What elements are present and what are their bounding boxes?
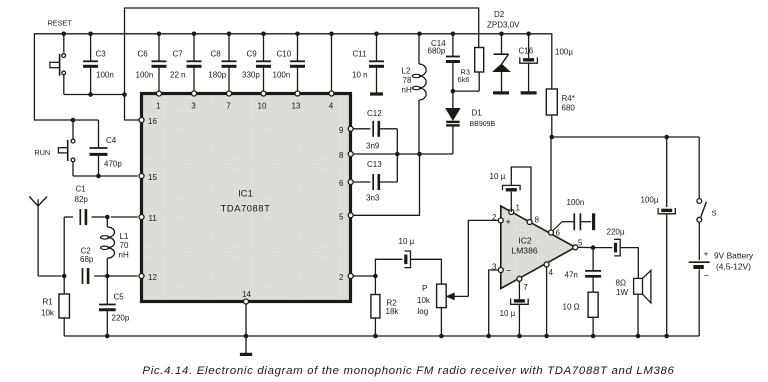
svg-text:100n: 100n	[96, 71, 114, 80]
ground terminal bar below C16	[521, 91, 537, 94]
loudspeaker 8 Ohm 1W	[616, 270, 651, 336]
capacitor 10u coupling	[375, 237, 441, 284]
svg-text:+: +	[506, 217, 511, 227]
IC1 pin 14	[242, 290, 251, 304]
capacitor C2 68p	[80, 247, 94, 285]
svg-text:78: 78	[403, 76, 412, 85]
svg-text:18k: 18k	[386, 307, 400, 316]
resistor R2 18k	[371, 276, 399, 336]
svg-text:+: +	[704, 249, 709, 259]
IC1 pin 5	[339, 212, 353, 221]
resistor R1 10k	[41, 276, 69, 336]
capacitor C4 470p	[90, 120, 123, 176]
svg-text:C6: C6	[138, 50, 149, 59]
wire: Vcc rail y=34 from RUN branch corner to R4 top	[34, 34, 551, 120]
ground symbol below pin 14	[240, 336, 252, 354]
IC1 pin 9	[339, 126, 353, 135]
svg-text:C7: C7	[173, 50, 184, 59]
node: D2 top on Vcc rail	[499, 32, 504, 37]
capacitor C7 22 n	[170, 34, 202, 91]
svg-text:10 n: 10 n	[352, 71, 368, 80]
svg-text:nH: nH	[119, 251, 129, 260]
IC1 TDA7088T body	[142, 94, 351, 302]
battery 9V	[689, 249, 754, 337]
node: C11 top on Vcc rail	[374, 32, 379, 37]
wire: pin 5 to tank	[353, 154, 419, 215]
resistor R4* 680	[546, 89, 575, 137]
svg-text:12: 12	[148, 273, 157, 282]
node: supply node below R4	[550, 135, 555, 140]
node: C2 left junction	[62, 274, 67, 279]
node: RESET button top junction on Vcc rail	[62, 32, 67, 37]
svg-text:16: 16	[148, 117, 157, 126]
pushbutton RESET	[48, 19, 73, 76]
wire: supply line to switch	[552, 137, 699, 199]
svg-text:RESET: RESET	[48, 19, 73, 28]
svg-text:C9: C9	[247, 50, 258, 59]
svg-text:BB909B: BB909B	[470, 121, 496, 128]
node: R2 bottom on ground rail	[373, 334, 378, 339]
IC2 pin 1	[509, 204, 521, 215]
zener diode D2 ZPD3.0V	[487, 10, 520, 92]
capacitor C14 680p	[428, 34, 460, 91]
svg-text:10 µ: 10 µ	[490, 172, 506, 181]
capacitor C9 330p	[242, 34, 271, 91]
svg-text:220µ: 220µ	[607, 228, 625, 237]
svg-text:5: 5	[578, 239, 583, 248]
node: 100u ground junction	[664, 334, 669, 339]
node: reset line meets vertical to pin 16	[122, 92, 127, 97]
svg-text:180p: 180p	[208, 71, 226, 80]
svg-text:C12: C12	[367, 109, 382, 118]
node: RUN button top junction	[71, 118, 76, 123]
node: pin4 ground junction	[544, 334, 549, 339]
svg-text:7: 7	[523, 283, 528, 292]
svg-text:1W: 1W	[616, 288, 628, 297]
wire: Vcc rail to RESET button	[63, 34, 65, 53]
svg-text:S: S	[712, 209, 717, 218]
svg-text:10k: 10k	[41, 309, 55, 318]
wire: supply to IC2 pin 6	[550, 137, 552, 230]
svg-text:C10: C10	[277, 50, 292, 59]
capacitor 100u (supply reservoir)	[641, 137, 676, 336]
svg-text:14: 14	[242, 290, 251, 299]
node: C5 bottom on ground rail	[105, 334, 110, 339]
capacitor C16 100u	[519, 34, 574, 92]
capacitor C13 3n3	[353, 154, 397, 203]
wire: RUN button bottom to pin 15 line	[73, 162, 138, 176]
svg-text:100n: 100n	[567, 198, 585, 207]
svg-text:100µ: 100µ	[555, 48, 573, 57]
IC2 pin 3 (-)	[492, 263, 511, 276]
svg-text:Pic.4.14. Electronic diagram: Pic.4.14. Electronic diagram of the mono…	[142, 365, 674, 377]
svg-text:L1: L1	[120, 232, 129, 241]
capacitor C8 180p	[208, 34, 236, 91]
wire: C2 run right to pin 12	[94, 275, 138, 277]
capacitor C12 3n9	[353, 109, 397, 154]
wire: C1/C2 left vertical	[64, 217, 73, 276]
svg-text:9V Battery: 9V Battery	[714, 251, 754, 261]
svg-text:47n: 47n	[565, 271, 578, 280]
svg-text:L2: L2	[402, 67, 411, 76]
node: C8 top on Vcc rail	[227, 32, 232, 37]
svg-text:3n3: 3n3	[366, 194, 380, 203]
svg-text:D1: D1	[472, 109, 483, 118]
node: C3 top on Vcc rail	[88, 32, 93, 37]
node: 100u branch on supply line	[664, 135, 669, 140]
svg-text:6: 6	[339, 179, 344, 188]
wire: IC1 pin 14 to ground rail	[245, 304, 247, 336]
op-amp IC2 LM386	[501, 206, 576, 289]
svg-text:C8: C8	[211, 50, 222, 59]
svg-text:8: 8	[535, 216, 540, 225]
svg-text:10k: 10k	[417, 296, 431, 305]
svg-text:8: 8	[339, 151, 344, 160]
IC1 pin 8	[339, 151, 353, 160]
node: VCO tank junction (L2/pin5/pin8)	[417, 152, 422, 157]
svg-text:220p: 220p	[112, 314, 130, 323]
svg-text:−: −	[506, 266, 511, 276]
antenna	[29, 197, 61, 277]
svg-text:6k6: 6k6	[458, 75, 470, 84]
node: C10 top on Vcc rail	[295, 32, 300, 37]
IC1 pin 6	[339, 179, 353, 188]
svg-text:R1: R1	[43, 298, 54, 307]
wire: switch to battery	[698, 222, 700, 260]
svg-text:100µ: 100µ	[641, 196, 659, 205]
IC1 pin 10	[258, 91, 267, 111]
wire: RUN line to button	[72, 120, 74, 139]
IC2 pin 8	[527, 216, 539, 225]
svg-text:log: log	[418, 307, 429, 316]
svg-text:15: 15	[148, 173, 157, 182]
caption	[142, 365, 674, 377]
capacitor C11 10n	[352, 34, 384, 94]
svg-text:C4: C4	[106, 136, 117, 145]
svg-text:680: 680	[562, 104, 576, 113]
svg-text:4: 4	[329, 102, 334, 111]
IC1 pin 4	[329, 91, 334, 111]
capacitor C1 82p	[75, 185, 138, 226]
wire: RESET button bottom to reset-node line	[64, 75, 125, 94]
resistor 10 Ohm	[563, 276, 599, 336]
capacitor 47n	[565, 248, 602, 280]
ground terminal bar right of 100n	[592, 213, 595, 230]
node: 10 Ohm bottom on ground rail	[591, 334, 596, 339]
wire: Vcc rail to IC1 pin 4	[331, 34, 333, 91]
IC1 pin 2	[339, 273, 353, 282]
svg-text:7: 7	[226, 102, 231, 111]
svg-text:D2: D2	[494, 10, 505, 19]
node: output junction (47n branch)	[591, 245, 596, 250]
wire: ground rail	[64, 335, 699, 337]
IC2 pin 2 (+)	[492, 213, 511, 227]
svg-text:R4*: R4*	[562, 94, 575, 103]
svg-text:IC2: IC2	[518, 236, 532, 246]
varicap diode D1 BB909B	[446, 91, 495, 154]
svg-text:1: 1	[516, 204, 521, 213]
node: C6 top on Vcc rail	[157, 32, 162, 37]
svg-text:LM386: LM386	[511, 246, 537, 256]
capacitor 220u output	[607, 228, 639, 279]
IC1 pin 15	[139, 173, 157, 182]
svg-text:330p: 330p	[242, 71, 260, 80]
node: pin7 cap ground junction	[517, 334, 522, 339]
svg-text:22 n: 22 n	[170, 71, 186, 80]
svg-text:TDA7088T: TDA7088T	[221, 203, 271, 214]
IC2 pin 4	[544, 262, 553, 277]
capacitor 10u (IC2 pins 1-8)	[490, 167, 532, 220]
svg-text:C13: C13	[367, 160, 382, 169]
node: pin 14 ground junction	[244, 334, 249, 339]
node: C7 top on Vcc rail	[192, 32, 197, 37]
svg-text:70: 70	[120, 241, 129, 250]
svg-text:5: 5	[339, 212, 344, 221]
svg-text:IC1: IC1	[238, 188, 253, 199]
node: L2 top on Vcc rail	[417, 32, 422, 37]
wire: IC2 output	[578, 246, 612, 248]
svg-text:−: −	[704, 271, 709, 281]
node: R2 / coupling junction	[373, 274, 378, 279]
svg-text:nH: nH	[402, 86, 412, 95]
node: C12/C13 junction on pin8 line	[395, 152, 400, 157]
IC1 pin 7	[226, 91, 231, 111]
svg-text:11: 11	[149, 214, 158, 223]
wire: IC2 pin 4 to ground	[546, 267, 548, 336]
IC1 pin 3	[191, 91, 196, 111]
IC1 pin 11	[139, 214, 157, 223]
node: C4 bottom junction on pin 15 line	[96, 174, 101, 179]
pushbutton RUN	[34, 139, 75, 162]
wire: top line from pin 16 node to R3 top (net RESET/search)	[125, 8, 479, 120]
svg-text:R2: R2	[387, 298, 398, 307]
node: L1 top on C1 run	[105, 215, 110, 220]
svg-text:RUN: RUN	[34, 148, 50, 157]
wire: IC2 pin 3 to ground	[489, 270, 498, 336]
svg-text:C16: C16	[519, 47, 534, 56]
node: C3 bottom junction	[88, 92, 93, 97]
svg-text:(4,5-12V): (4,5-12V)	[716, 262, 751, 272]
svg-text:8Ω: 8Ω	[616, 279, 626, 288]
IC2 pin 5 (out)	[573, 239, 583, 250]
capacitor C3 100n	[83, 34, 114, 95]
svg-text:C1: C1	[76, 185, 87, 194]
svg-text:4: 4	[549, 268, 554, 277]
node: C9 top on Vcc rail	[261, 32, 266, 37]
wire: pot wiper arrow to IC2 pin 2	[447, 220, 498, 299]
ground terminal bar below D2	[493, 91, 509, 94]
potentiometer P 10k log	[417, 284, 446, 336]
svg-text:C11: C11	[353, 50, 368, 59]
IC1 pin 13	[292, 91, 301, 111]
node: C14 top on Vcc rail	[451, 32, 456, 37]
svg-text:100n: 100n	[273, 71, 291, 80]
node: R3 joins C14/D1 node	[451, 89, 456, 94]
IC2 pin 6	[549, 229, 561, 238]
capacitor 10u at IC2 pin 7	[500, 282, 529, 336]
wire: pin 8 line to varicap	[353, 153, 453, 155]
IC1 pin 16	[139, 117, 157, 126]
wire: IC1 pin 2 output line	[353, 275, 375, 277]
node: pin4 wire on Vcc rail	[329, 32, 334, 37]
svg-text:1: 1	[156, 102, 161, 111]
svg-text:680p: 680p	[428, 47, 446, 56]
IC2 pin 7	[517, 276, 528, 292]
node: pot bottom on ground rail	[439, 334, 444, 339]
svg-text:ZPD3,0V: ZPD3,0V	[487, 21, 520, 30]
svg-text:6: 6	[556, 229, 561, 238]
node: speaker ground junction	[636, 334, 641, 339]
svg-text:100n: 100n	[136, 71, 154, 80]
IC1 pin 12	[139, 273, 157, 282]
svg-text:82p: 82p	[75, 195, 89, 204]
ground terminal bar below C11	[370, 92, 383, 95]
switch S	[697, 199, 717, 223]
node: L1 bottom on C2 run	[105, 274, 110, 279]
svg-text:10 µ: 10 µ	[399, 237, 415, 246]
svg-text:10 Ω: 10 Ω	[563, 303, 580, 312]
svg-text:470p: 470p	[104, 160, 122, 169]
inductor L1 70nH	[101, 217, 129, 276]
svg-text:9: 9	[339, 126, 344, 135]
svg-text:P: P	[422, 284, 427, 293]
capacitor C10 100n	[273, 34, 306, 91]
capacitor C5 220p	[99, 276, 130, 336]
node: C16 top on Vcc rail	[526, 32, 531, 37]
inductor L2 78nH	[402, 34, 427, 154]
svg-text:3n9: 3n9	[366, 142, 380, 151]
svg-text:C5: C5	[114, 293, 125, 302]
svg-text:C3: C3	[96, 50, 107, 59]
svg-text:13: 13	[292, 102, 301, 111]
resistor R3 6k6	[453, 48, 484, 92]
IC1 pin 1	[156, 91, 161, 111]
node: pin3 ground junction	[486, 334, 491, 339]
svg-text:3: 3	[191, 102, 196, 111]
svg-text:10 µ: 10 µ	[500, 309, 516, 318]
svg-text:10: 10	[258, 102, 267, 111]
capacitor C6 100n	[136, 34, 167, 91]
svg-text:2: 2	[339, 273, 344, 282]
capacitor 100n at IC2 pin 6	[553, 198, 591, 231]
svg-text:68p: 68p	[80, 255, 94, 264]
